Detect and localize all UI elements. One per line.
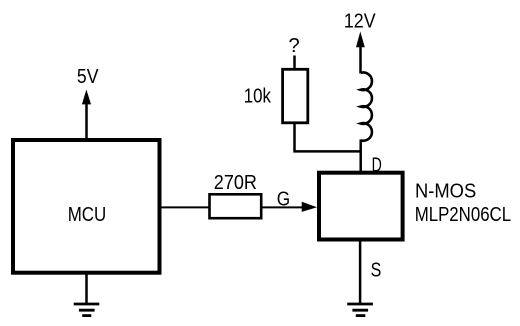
- svg-text:10k: 10k: [244, 86, 272, 108]
- svg-text:5V: 5V: [77, 66, 99, 88]
- svg-text:270R: 270R: [214, 172, 257, 194]
- wire MCU right to resistor R1: [162, 206, 210, 208]
- ground (MCU): [74, 304, 100, 316]
- wire resistor R2 to drain node: [295, 123, 361, 152]
- svg-text:N-MOS: N-MOS: [415, 180, 476, 202]
- svg-text:MLP2N06CL: MLP2N06CL: [415, 204, 511, 226]
- svg-text:12V: 12V: [344, 11, 376, 33]
- wire MCU top to 5V arrow: [85, 103, 88, 140]
- wire drain to inductor: [359, 140, 362, 172]
- wire inductor top to 12V arrow: [359, 46, 362, 74]
- svg-text:MCU: MCU: [68, 204, 107, 226]
- gate arrowhead into MOSFET: [302, 202, 317, 212]
- resistor R2 10k body: [283, 69, 308, 123]
- wire source to ground: [359, 241, 362, 304]
- 5V supply arrow: [82, 90, 91, 105]
- svg-text:G: G: [277, 189, 290, 211]
- wire MCU bottom to ground: [85, 273, 88, 304]
- svg-text:D: D: [372, 155, 382, 177]
- wire resistor R1 to gate arrow: [263, 206, 304, 208]
- svg-text:S: S: [371, 260, 382, 282]
- wire ? to resistor R2: [293, 56, 296, 70]
- transistor Q1 N-MOS body: [319, 173, 403, 240]
- svg-text:?: ?: [289, 35, 300, 57]
- MCU U1 box: [13, 140, 160, 273]
- 12V supply arrow: [356, 32, 365, 48]
- ground (source): [347, 304, 373, 316]
- resistor R1 270R body: [210, 194, 262, 218]
- inductor L1 coil: [361, 72, 372, 140]
